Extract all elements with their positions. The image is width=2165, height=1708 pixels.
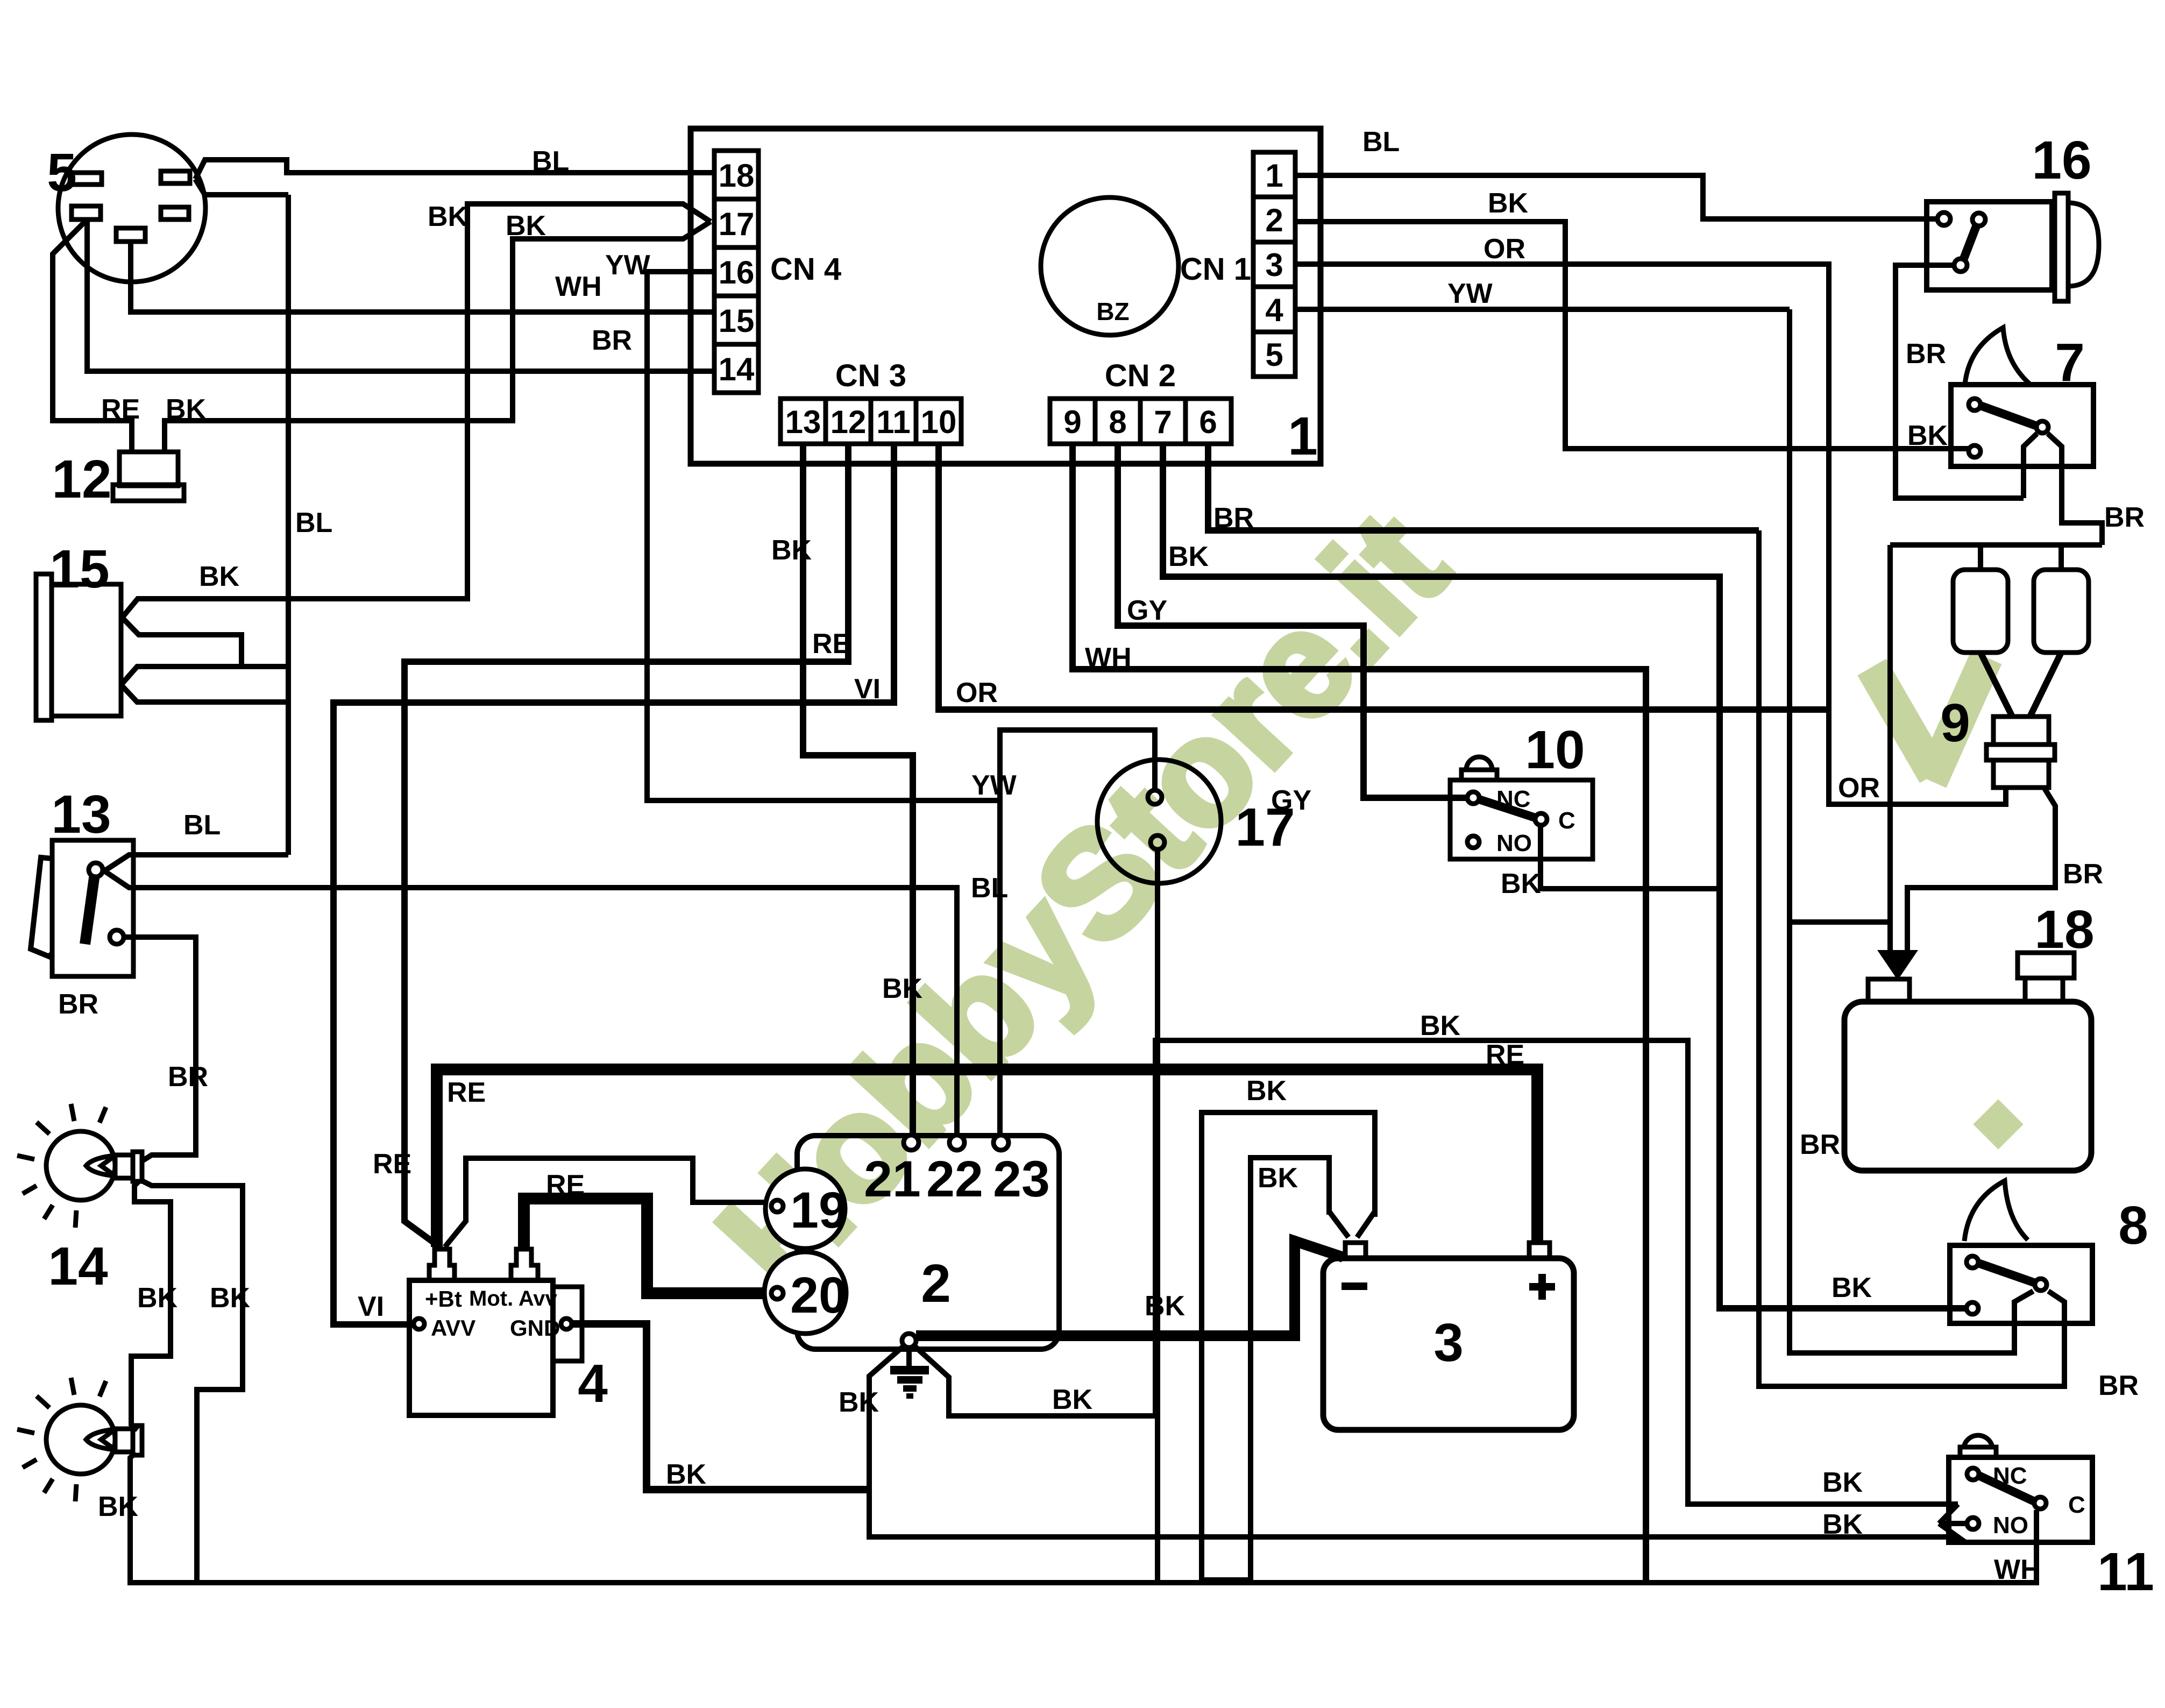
svg-text:BR: BR bbox=[1906, 338, 1946, 370]
svg-text:13: 13 bbox=[785, 404, 821, 440]
wire BK CN1 pin2 to switch 7 lower contact bbox=[1295, 222, 1969, 449]
main control board 1 outline bbox=[691, 129, 1321, 464]
svg-text:15: 15 bbox=[49, 539, 109, 599]
svg-text:1: 1 bbox=[1288, 406, 1318, 466]
microswitch 11 lever bbox=[1979, 1476, 2034, 1501]
distributor 17 circle bbox=[1097, 760, 1221, 883]
microswitch 10 NC contact bbox=[1467, 792, 1479, 804]
svg-text:BZ: BZ bbox=[1096, 297, 1129, 325]
microswitch 10 C contact bbox=[1535, 813, 1547, 825]
wire BK ground right branch loop bbox=[914, 1040, 1958, 1504]
solenoid 16 body bbox=[1927, 202, 2052, 290]
svg-text:13: 13 bbox=[51, 784, 111, 845]
microswitch 11 body bbox=[1949, 1457, 2092, 1542]
svg-text:BK: BK bbox=[839, 1387, 879, 1418]
switch 5 terminal bottom-center bbox=[116, 228, 145, 242]
lamp 14 lower bulb bbox=[46, 1405, 115, 1474]
wire RE from +Bt chevron to ignition circle 19 bbox=[445, 1158, 771, 1247]
wire BL from switch 5 to CN4 pin 18 (chevron + jog) bbox=[195, 160, 714, 179]
distributor 17 bottom pin bbox=[1151, 835, 1165, 849]
svg-text:3: 3 bbox=[1433, 1313, 1464, 1373]
svg-text:5: 5 bbox=[47, 143, 77, 203]
svg-text:BK: BK bbox=[1822, 1467, 1863, 1498]
svg-text:3: 3 bbox=[1265, 247, 1283, 283]
relay 4 GND pin bbox=[561, 1319, 572, 1329]
svg-text:BR: BR bbox=[168, 1061, 208, 1093]
svg-text:RE: RE bbox=[101, 394, 140, 425]
svg-text:7: 7 bbox=[1154, 404, 1172, 440]
switch 8 lever bbox=[1978, 1263, 2035, 1283]
svg-text:BK: BK bbox=[1832, 1272, 1872, 1303]
microswitch 11 NO contact bbox=[1967, 1518, 1979, 1529]
coil 9 left winding bbox=[1953, 570, 2008, 653]
svg-text:BK: BK bbox=[166, 394, 207, 425]
wire OR CN3 pin10 east bbox=[939, 444, 1829, 710]
lamp 14 upper bulb bbox=[46, 1131, 115, 1200]
switch 13 upper contact bbox=[89, 863, 103, 877]
svg-text:4: 4 bbox=[1265, 292, 1283, 328]
switch 7 upper contact bbox=[1969, 399, 1981, 410]
switch 8 upper contact bbox=[1967, 1256, 1978, 1268]
speaker 15 lower chevron to BL trunk bbox=[121, 685, 289, 702]
svg-text:OR: OR bbox=[1483, 233, 1525, 265]
switch 7 lower contact bbox=[1969, 445, 1981, 457]
wire YW CN1 pin4 down to bottom run bbox=[1295, 307, 1790, 312]
wire BK thick engine ground to battery minus bbox=[916, 1241, 1343, 1336]
battery plus post bbox=[1529, 1243, 1550, 1258]
solenoid 16 lamp dome bbox=[2068, 203, 2099, 286]
svg-text:BR: BR bbox=[2063, 859, 2103, 890]
svg-text:YW: YW bbox=[605, 250, 651, 281]
svg-text:OR: OR bbox=[956, 677, 998, 708]
svg-text:BK: BK bbox=[882, 973, 923, 1004]
switch 7 flame bbox=[1965, 328, 2031, 385]
watermark HobbyStore.it bbox=[686, 481, 2023, 1322]
thermal switch 7 body bbox=[1951, 385, 2093, 466]
solenoid 16 lever bbox=[1963, 225, 1977, 260]
microswitch 11 C contact bbox=[2034, 1497, 2046, 1509]
svg-text:CN 1: CN 1 bbox=[1180, 252, 1251, 287]
wire BR coil 9 connector to tank arrow bbox=[1907, 788, 2055, 953]
svg-text:NC: NC bbox=[1993, 1463, 2027, 1489]
svg-text:BR: BR bbox=[1800, 1129, 1840, 1160]
svg-text:RE: RE bbox=[447, 1077, 486, 1108]
svg-text:CN 4: CN 4 bbox=[770, 252, 841, 287]
BR trunk vertical to switch 8 common bbox=[1759, 530, 2064, 1386]
wire WH from switch 5 to CN4 pin 15 bbox=[131, 242, 714, 312]
svg-text:2: 2 bbox=[921, 1253, 951, 1314]
wire BK microswitch 10 C to BK chain bbox=[1541, 826, 1720, 889]
solenoid 16 lamp bar bbox=[2055, 193, 2068, 301]
svg-text:RE: RE bbox=[1486, 1039, 1524, 1071]
svg-text:NO: NO bbox=[1496, 830, 1532, 856]
chevron into switch 11 NO bbox=[1939, 1504, 1967, 1523]
relay 4 AVV pin bbox=[414, 1319, 424, 1329]
svg-text:BK: BK bbox=[1488, 188, 1529, 219]
switch 8 flame bbox=[1964, 1181, 2028, 1241]
battery plus sign bbox=[1529, 1274, 1555, 1300]
svg-text:BR: BR bbox=[2104, 502, 2145, 533]
switch 7 lever bbox=[1981, 406, 2037, 426]
svg-text:BK: BK bbox=[1907, 420, 1948, 451]
svg-text:Mot. Avv: Mot. Avv bbox=[469, 1287, 557, 1310]
coil 9 converging legs bbox=[1981, 653, 2061, 717]
svg-text:22: 22 bbox=[926, 1151, 983, 1208]
wire RE from switch 5 down to connector 12 bbox=[53, 219, 132, 452]
svg-text:BK: BK bbox=[98, 1491, 139, 1522]
svg-text:BK: BK bbox=[1052, 1384, 1093, 1415]
svg-text:YW: YW bbox=[971, 770, 1017, 801]
svg-text:9: 9 bbox=[1940, 693, 1970, 753]
wire BK thick from relay 4 GND pin east and down bbox=[572, 1324, 869, 1490]
svg-text:21: 21 bbox=[864, 1151, 921, 1208]
svg-text:YW: YW bbox=[1447, 278, 1493, 309]
wire BK linking lamp 14 bulbs path A bbox=[131, 1181, 171, 1430]
coil 9 winding feeds bbox=[1890, 545, 2102, 570]
svg-text:C: C bbox=[2068, 1492, 2085, 1518]
svg-text:4: 4 bbox=[578, 1353, 608, 1414]
svg-text:GY: GY bbox=[1271, 785, 1311, 816]
svg-text:RE: RE bbox=[812, 628, 851, 660]
svg-text:C: C bbox=[1558, 807, 1575, 834]
wire BL CN1 pin1 to solenoid 16 bbox=[1295, 175, 1938, 219]
battery minus post bbox=[1345, 1243, 1366, 1258]
svg-text:RE: RE bbox=[373, 1149, 411, 1180]
buzzer BZ circle bbox=[1041, 197, 1179, 335]
svg-text:VI: VI bbox=[358, 1291, 384, 1322]
relay 4 GND side tab bbox=[553, 1287, 582, 1361]
speaker 15 body bbox=[36, 574, 52, 720]
svg-text:OR: OR bbox=[1838, 773, 1880, 804]
svg-text:BR: BR bbox=[2098, 1370, 2139, 1401]
engine 2 ground junction bbox=[902, 1334, 916, 1348]
microswitch 10 NO contact bbox=[1467, 836, 1479, 848]
svg-text:GND: GND bbox=[510, 1315, 560, 1341]
wire BK CN3 pin13 to engine terminal 21 bbox=[803, 444, 913, 1136]
connector CN4 body bbox=[714, 151, 758, 393]
svg-text:23: 23 bbox=[993, 1151, 1050, 1208]
svg-text:BK: BK bbox=[137, 1282, 178, 1314]
svg-text:WH: WH bbox=[555, 271, 602, 302]
switch 5 terminal mid-left bbox=[72, 206, 101, 219]
switch 5 terminal mid-right bbox=[161, 207, 189, 219]
wire from 17 top pin to YW node bbox=[1000, 730, 1155, 800]
rocker switch 13 body bbox=[52, 840, 133, 976]
svg-text:BK: BK bbox=[1246, 1075, 1287, 1107]
ignition switch 5 circle bbox=[58, 134, 205, 282]
microswitch 11 NC contact bbox=[1967, 1468, 1979, 1480]
svg-text:7: 7 bbox=[2055, 332, 2085, 393]
battery minus sign bbox=[1341, 1282, 1367, 1290]
svg-text:RE: RE bbox=[546, 1170, 585, 1201]
switch 13 lower contact bbox=[110, 930, 124, 944]
wire BR from switch 5 to CN4 pin 14 bbox=[87, 219, 714, 371]
wire BK from speaker 15 to CN4 pin 17 bbox=[122, 204, 711, 618]
svg-text:11: 11 bbox=[2097, 1542, 2154, 1602]
ignition coil circle 20 bbox=[764, 1252, 846, 1334]
svg-text:GY: GY bbox=[1127, 595, 1167, 626]
tank 18 right cap bbox=[2018, 953, 2074, 978]
svg-text:16: 16 bbox=[719, 254, 755, 290]
wire BK ground left branch down to bottom BK run bbox=[869, 1346, 1958, 1537]
speaker 15 upper chevron second prong bbox=[121, 618, 289, 685]
thermal switch 8 body bbox=[1950, 1245, 2092, 1323]
wire BK battery minus thin loop A bbox=[1202, 1112, 1375, 1580]
svg-text:BK: BK bbox=[506, 210, 546, 242]
svg-text:12: 12 bbox=[830, 404, 867, 440]
connector CN3 body bbox=[780, 399, 961, 444]
wire GY CN2 pin8 to microswitch 10 NC bbox=[1118, 444, 1467, 798]
switch 13 lever bbox=[85, 874, 95, 944]
wire BK linking lamp 14 bulbs path B bbox=[143, 1181, 243, 1583]
microswitch 11 button bbox=[1960, 1447, 1996, 1457]
engine terminal 21 bbox=[904, 1135, 919, 1150]
svg-text:BK: BK bbox=[199, 561, 240, 592]
switch 8 lower contact bbox=[1967, 1302, 1978, 1314]
wire BK CN2 pin7 down and east to switch 8 bbox=[1163, 444, 1967, 1308]
connector CN2 body bbox=[1050, 399, 1231, 444]
svg-text:BK: BK bbox=[1168, 541, 1209, 572]
svg-text:17: 17 bbox=[719, 206, 755, 242]
svg-text:BL: BL bbox=[183, 810, 221, 841]
microswitch 10 button bbox=[1461, 770, 1497, 780]
svg-text:BR: BR bbox=[58, 989, 98, 1020]
wire BK from connector 12 to CN4 pin 17 bbox=[165, 222, 711, 452]
ground symbol under engine 2 bbox=[890, 1348, 929, 1396]
svg-text:BL: BL bbox=[532, 146, 569, 177]
svg-text:14: 14 bbox=[48, 1236, 108, 1296]
solenoid 16 right contact bbox=[1972, 213, 1985, 226]
svg-text:10: 10 bbox=[921, 404, 957, 440]
wire RE thick from battery + to relay 4 +Bt bbox=[437, 1069, 1537, 1247]
svg-text:12: 12 bbox=[52, 449, 111, 509]
svg-text:+Bt: +Bt bbox=[425, 1286, 462, 1312]
lamp 14 upper bulb rays bbox=[17, 1104, 106, 1228]
wire WH CN2 pin9 down and east bbox=[1073, 444, 1646, 1583]
svg-text:BK: BK bbox=[428, 201, 469, 232]
switch 13 paddle bbox=[31, 857, 52, 956]
connector CN1 body bbox=[1253, 152, 1295, 377]
svg-text:BL: BL bbox=[971, 873, 1008, 904]
starter relay 4 body bbox=[409, 1280, 553, 1415]
svg-text:CN 3: CN 3 bbox=[835, 358, 906, 393]
svg-text:19: 19 bbox=[790, 1182, 847, 1239]
switch 8 common contact bbox=[2035, 1279, 2047, 1291]
solenoid 16 lower contact bbox=[1954, 259, 1967, 272]
wire BR solenoid 16 to switch 7 common bbox=[1896, 265, 2024, 498]
svg-text:NC: NC bbox=[1496, 786, 1531, 812]
svg-text:BR: BR bbox=[1213, 502, 1254, 534]
svg-text:BR: BR bbox=[592, 325, 632, 356]
svg-text:18: 18 bbox=[719, 158, 755, 194]
svg-text:NO: NO bbox=[1993, 1512, 2028, 1539]
svg-text:VI: VI bbox=[854, 674, 881, 705]
svg-text:16: 16 bbox=[2032, 130, 2091, 190]
svg-text:10: 10 bbox=[1525, 720, 1585, 780]
svg-text:BK: BK bbox=[210, 1282, 251, 1314]
microswitch 10 lever bbox=[1479, 799, 1535, 818]
wire BL vertical trunk down to switch 13 and terminal 22 bbox=[286, 195, 291, 855]
wire RE CN3 pin12 down to relay 4 +Bt bbox=[404, 444, 848, 1246]
svg-text:BK: BK bbox=[1501, 868, 1542, 899]
svg-text:8: 8 bbox=[1109, 404, 1126, 440]
tank arrow head bbox=[1877, 950, 1918, 980]
wire BR CN2 pin6 east to BR trunk bbox=[1208, 444, 1759, 530]
wire BR from switch 13 down to lamp 14 bbox=[124, 937, 196, 1160]
svg-text:AVV: AVV bbox=[431, 1315, 475, 1341]
svg-text:2: 2 bbox=[1265, 202, 1283, 238]
svg-text:BK: BK bbox=[1258, 1163, 1298, 1194]
svg-text:14: 14 bbox=[719, 351, 755, 387]
svg-text:1: 1 bbox=[1265, 158, 1283, 194]
svg-text:CN 2: CN 2 bbox=[1105, 358, 1176, 393]
microswitch 10 body bbox=[1450, 780, 1593, 859]
svg-text:18: 18 bbox=[2034, 899, 2094, 960]
svg-text:6: 6 bbox=[1199, 404, 1217, 440]
engine terminal 22 bbox=[949, 1135, 964, 1150]
svg-text:20: 20 bbox=[790, 1267, 847, 1324]
svg-text:BL: BL bbox=[1362, 126, 1400, 158]
lamp 14 lower bulb rays bbox=[17, 1378, 106, 1501]
connector 12 body bbox=[119, 452, 178, 486]
wire BL from switch 13 to BL trunk (double chevron) bbox=[104, 855, 288, 871]
wire VI CN3 pin11 to relay 4 AVV bbox=[333, 444, 894, 1324]
wire OR CN1 pin3 down to coil connector 9 bbox=[1295, 264, 2006, 804]
switch 5 terminal top-left bbox=[72, 173, 102, 185]
engine unit 2 body bbox=[797, 1136, 1059, 1349]
svg-text:BK: BK bbox=[1145, 1291, 1186, 1322]
svg-text:WH: WH bbox=[1994, 1554, 2041, 1585]
relay 4 +Bt tab bbox=[429, 1249, 455, 1280]
wire YW CN4 pin16 to engine terminal 23 bbox=[647, 272, 1000, 1136]
svg-text:11: 11 bbox=[876, 404, 910, 440]
svg-text:BL: BL bbox=[295, 507, 332, 538]
solenoid 16 left contact bbox=[1937, 212, 1950, 225]
wire WH long bottom run from lamp 14 to switch 11 C bbox=[130, 1452, 2036, 1583]
distributor 17 top pin bbox=[1148, 790, 1162, 804]
svg-text:BK: BK bbox=[1822, 1509, 1863, 1540]
svg-text:9: 9 bbox=[1063, 404, 1081, 440]
coil 9 connector stack bbox=[1993, 717, 2049, 745]
svg-text:8: 8 bbox=[2118, 1195, 2148, 1256]
switch 7 common legs bbox=[2024, 434, 2102, 545]
svg-text:5: 5 bbox=[1265, 337, 1283, 373]
svg-text:BK: BK bbox=[666, 1459, 707, 1490]
tank arrow shaft left line bbox=[1887, 545, 1893, 953]
fuel tank 18 body bbox=[1844, 1002, 2091, 1171]
svg-text:BK: BK bbox=[771, 535, 812, 566]
tank 18 left cap bbox=[1868, 979, 1910, 1002]
switch 7 common contact bbox=[2036, 421, 2048, 433]
coil 9 right winding bbox=[2034, 570, 2089, 653]
svg-text:15: 15 bbox=[719, 303, 755, 339]
relay 4 Mot.Avv tab bbox=[511, 1249, 538, 1280]
wire BR switch 8 left leg up to tank arrow bbox=[1790, 309, 2033, 1353]
wire from 17 bottom pin down to bottom run bbox=[1155, 849, 1160, 1583]
engine terminal 23 bbox=[993, 1135, 1009, 1150]
switch 5 terminal top-right bbox=[161, 171, 190, 183]
svg-text:WH: WH bbox=[1085, 642, 1132, 674]
battery minus thin chevron bbox=[1329, 1211, 1375, 1237]
battery 3 body bbox=[1323, 1258, 1574, 1430]
ignition coil circle 19 bbox=[765, 1169, 845, 1249]
wire RE thick from relay 4 Mot.Avv to engine terminal 20 bbox=[524, 1199, 771, 1293]
svg-text:BK: BK bbox=[1420, 1010, 1461, 1041]
